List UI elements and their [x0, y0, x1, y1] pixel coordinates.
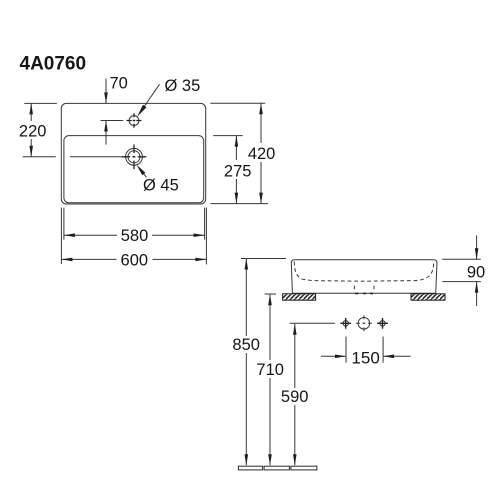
svg-text:710: 710 — [256, 361, 284, 379]
svg-text:850: 850 — [232, 336, 260, 354]
dimension 420 line — [260, 103, 262, 203]
dimension 150 extension left — [345, 337, 347, 363]
washbasin plan view outer rim — [61, 103, 205, 204]
dimension 150 right arrow line — [383, 355, 411, 357]
elevation drain dashes on bottom line — [355, 293, 373, 295]
svg-text:420: 420 — [248, 145, 276, 163]
dimension 70 up arrow — [104, 121, 108, 132]
dimension 275 extension top — [213, 135, 243, 137]
wall fitting hole left — [343, 321, 348, 326]
svg-text:70: 70 — [110, 74, 128, 92]
wall fitting hole center — [358, 318, 370, 330]
dimension 70 down arrow — [104, 92, 108, 103]
drain hole outer circle — [126, 148, 143, 165]
dimension 590 extension centerline — [290, 322, 335, 324]
dimension 90 extension bottom — [442, 281, 481, 283]
dimension 850 down arrow — [245, 454, 249, 465]
wall fitting hole right cross — [377, 318, 388, 329]
dimension 90 down arrow — [475, 248, 479, 259]
svg-text:600: 600 — [121, 252, 149, 270]
svg-text:Ø 45: Ø 45 — [143, 177, 179, 195]
floor bar 1 — [238, 466, 262, 470]
dimension 420 extension bottom — [210, 203, 268, 205]
dimension 850 up arrow — [245, 259, 249, 270]
dimension 580 right arrow — [194, 233, 205, 237]
wall fitting hole left cross — [340, 318, 351, 329]
dimension 420 up arrow — [259, 103, 263, 114]
dimension 600 extension right — [205, 208, 207, 265]
faucet centerline — [101, 120, 124, 122]
dimension 70 lower line — [105, 121, 107, 145]
dimension 90 extension top — [442, 258, 481, 260]
wall fitting hole right — [380, 321, 385, 326]
dimension 150 arrow left — [383, 355, 394, 359]
faucet hole circle — [129, 116, 139, 126]
dimension 850 extension top — [241, 258, 286, 260]
dimension 90 lower line — [476, 282, 478, 306]
svg-text:4A0760: 4A0760 — [20, 54, 87, 75]
drain hole center ticks — [122, 145, 147, 170]
elevation drain ticks — [354, 286, 374, 290]
dimension 580 line — [64, 234, 205, 236]
elevation basin outline — [291, 260, 437, 294]
counter hatch right — [411, 294, 445, 300]
faucet hole center ticks — [127, 113, 142, 128]
drain centerline — [70, 156, 122, 158]
dimension 420 down arrow — [259, 193, 263, 204]
dimension 600 left arrow — [61, 258, 72, 262]
svg-text:580: 580 — [121, 227, 149, 245]
elevation bowl dashed profile — [294, 262, 434, 282]
dimension 600 extension left — [60, 208, 62, 264]
washbasin plan view inner bowl — [64, 136, 204, 203]
dimension 580 left arrow — [64, 233, 75, 237]
leader arrow d35 — [137, 105, 146, 117]
svg-text:Ø 35: Ø 35 — [165, 77, 201, 95]
dimension 150 extension right — [382, 337, 384, 363]
dimension 275 line — [235, 136, 237, 204]
dimension 580 extension left — [63, 208, 65, 240]
svg-text:275: 275 — [224, 163, 252, 181]
dimension 90 up arrow — [475, 282, 479, 293]
drain hole inner circle — [128, 151, 140, 163]
dimension 850 line — [245, 259, 247, 466]
dimension 90 upper line — [476, 235, 478, 259]
dimension 710 down arrow — [268, 454, 272, 465]
dimension 220 line — [30, 103, 32, 156]
dimension 590 down arrow — [293, 454, 297, 465]
leader line d45 — [140, 169, 147, 177]
dimension 150 arrow right — [335, 355, 346, 359]
dimension 420 extension top — [210, 102, 265, 104]
dimension 275 down arrow — [235, 193, 239, 204]
svg-text:150: 150 — [351, 349, 379, 368]
svg-text:590: 590 — [281, 388, 309, 406]
leader line d35 — [141, 84, 160, 112]
dimension 600 right arrow — [195, 258, 206, 262]
floor bar 2 — [264, 466, 289, 470]
wall fitting hole center ticks — [356, 315, 372, 331]
dimension 710 up arrow — [268, 294, 272, 305]
dimension 710 line — [269, 294, 271, 465]
dimension 220 up arrow — [29, 103, 33, 114]
floor bar 3 — [291, 466, 317, 470]
dimension 590 up arrow — [293, 324, 297, 335]
leader arrow d45 — [136, 165, 145, 176]
dimension 220 extension bottom — [23, 156, 56, 158]
dimension 600 line — [61, 258, 206, 260]
svg-text:220: 220 — [19, 122, 47, 140]
dimension 220 down arrow — [29, 146, 33, 157]
dimension 710 extension top — [265, 293, 277, 295]
dimension 590 line — [294, 324, 296, 466]
dimension 275 up arrow — [235, 136, 239, 147]
dimension 580 extension right — [204, 208, 206, 240]
dimension 70 upper line — [105, 79, 107, 104]
counter hatch left — [283, 294, 316, 300]
dimension 150 left line — [321, 355, 346, 357]
svg-text:90: 90 — [467, 263, 485, 281]
dimension 220 extension top — [24, 102, 57, 104]
